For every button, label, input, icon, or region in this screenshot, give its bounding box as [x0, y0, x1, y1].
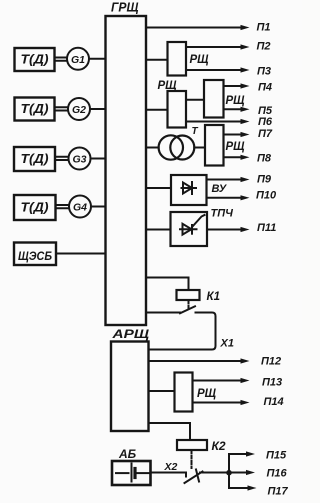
distribution board РЩ1 [168, 42, 187, 76]
svg-text:G1: G1 [71, 54, 85, 66]
svg-text:РЩ: РЩ [190, 54, 210, 66]
feeder П2 [186, 46, 241, 48]
diode symbol in ВУ [182, 187, 197, 189]
contactor coil K1 [177, 290, 200, 300]
wire transformer to РЩ4 [194, 147, 205, 149]
wire bus to ТПЧ [146, 229, 171, 231]
svg-text:П3: П3 [257, 66, 271, 78]
wire G2 to bus [90, 108, 106, 110]
wire G4 to bus [91, 206, 106, 208]
svg-text:П17: П17 [268, 486, 289, 498]
svg-text:П6: П6 [258, 116, 273, 128]
wire G3 to bus [91, 158, 106, 160]
svg-text:П11: П11 [257, 222, 276, 234]
feeder П8 [224, 156, 242, 158]
wire АРЩ to contactor K2 [149, 423, 191, 440]
svg-text:К2: К2 [212, 439, 226, 453]
feeder П3 [186, 69, 241, 71]
svg-text:Т(Д): Т(Д) [21, 102, 49, 116]
mechanical link K2 (dashed) [191, 450, 193, 468]
rectifier unit ВУ [171, 175, 207, 205]
wire bus to РЩ2 [146, 109, 168, 111]
junction node [226, 470, 232, 476]
svg-text:РЩ: РЩ [226, 95, 246, 107]
generator G2 [68, 98, 90, 120]
svg-text:П13: П13 [262, 377, 282, 389]
svg-text:Т: Т [192, 126, 199, 137]
svg-text:П2: П2 [257, 41, 271, 53]
svg-text:К1: К1 [207, 291, 220, 303]
svg-text:П12: П12 [261, 356, 281, 368]
wire contact to X1 [149, 313, 216, 350]
feeder П4 [224, 85, 242, 87]
wire bus to transformer [146, 147, 159, 149]
svg-text:П9: П9 [257, 174, 272, 186]
svg-text:G4: G4 [73, 202, 87, 214]
feeder П9 [207, 179, 242, 181]
wire bus to ВУ [146, 187, 171, 189]
main switchboard bus ГРЩ [106, 16, 147, 325]
contact K1 wire from bus [146, 312, 180, 314]
coupling link 1 [55, 58, 66, 61]
battery cell symbol [116, 472, 129, 474]
distribution board РЩ3 [204, 80, 224, 118]
wire G1 to bus [89, 58, 106, 60]
svg-text:G3: G3 [72, 154, 86, 166]
feeder П10 [207, 197, 242, 199]
svg-text:П16: П16 [267, 468, 288, 480]
coupling link 4 [56, 205, 69, 208]
svg-text:П14: П14 [264, 396, 284, 408]
wire bus to contactor K1 [146, 278, 189, 291]
svg-text:ВУ: ВУ [212, 183, 228, 195]
wire АБ to switch [151, 472, 187, 474]
distribution board РЩ5 [175, 373, 193, 412]
svg-text:ТПЧ: ТПЧ [211, 208, 234, 220]
svg-text:Т(Д): Т(Д) [21, 201, 49, 215]
wire ЩЭСБ to bus [56, 253, 106, 255]
svg-text:ГРЩ: ГРЩ [111, 1, 139, 15]
generator set box T(Д) 4 [14, 195, 56, 220]
generator set box T(Д) 3 [14, 147, 55, 171]
svg-text:Х1: Х1 [220, 338, 234, 350]
feeder П17 [229, 487, 248, 489]
feeder П16 [229, 472, 247, 474]
svg-text:П4: П4 [258, 81, 272, 93]
wire РЩ2 to РЩ3 [186, 99, 204, 101]
generator set box T(Д) 2 [15, 98, 55, 121]
svg-text:АБ: АБ [118, 447, 137, 461]
shore supply box ЩЭСБ [14, 243, 56, 266]
svg-text:РЩ: РЩ [226, 141, 246, 153]
feeder П11 [207, 229, 241, 231]
svg-text:G2: G2 [72, 104, 86, 116]
svg-text:РЩ: РЩ [197, 388, 217, 400]
distribution board РЩ2 [168, 91, 187, 128]
feeder П14 [193, 402, 242, 404]
contactor coil K2 [177, 440, 207, 450]
feeder П6 [186, 121, 241, 123]
branch riser [228, 454, 230, 488]
wire bus to РЩ1 [146, 59, 168, 61]
feeder П13 [193, 380, 242, 382]
svg-text:РЩ: РЩ [158, 80, 178, 92]
svg-text:П10: П10 [256, 189, 277, 201]
svg-text:АРЩ: АРЩ [111, 329, 150, 341]
feeder П7 [224, 134, 242, 136]
svg-text:П7: П7 [258, 128, 273, 140]
svg-text:П8: П8 [257, 153, 272, 165]
generator G4 [69, 196, 91, 218]
wire АРЩ to РЩ5 [149, 390, 175, 392]
generator G3 [69, 148, 91, 170]
coupling link 2 [55, 107, 67, 110]
feeder П5 [224, 108, 242, 110]
generator G1 [67, 48, 89, 70]
contact K1 blade [180, 306, 195, 313]
coupling link 3 [55, 157, 67, 160]
svg-text:Т(Д): Т(Д) [21, 53, 49, 67]
svg-text:Т(Д): Т(Д) [21, 152, 49, 166]
feeder П12 [149, 360, 242, 362]
svg-text:Х2: Х2 [164, 461, 178, 473]
feeder П1 [146, 27, 241, 29]
svg-text:П1: П1 [257, 22, 271, 34]
thyristor frequency converter ТПЧ [171, 212, 208, 246]
feeder П15 [229, 453, 247, 455]
thyristor symbol in ТПЧ [180, 228, 197, 230]
transformer T [159, 135, 183, 159]
svg-text:П15: П15 [266, 450, 287, 462]
generator set box T(Д) 1 [15, 48, 55, 71]
wire switch to junction [200, 472, 229, 474]
emergency switchboard АРЩ [111, 342, 149, 432]
mechanical link K1 (dashed) [188, 300, 190, 309]
switch K2 blade [185, 473, 187, 477]
svg-text:ЩЭСБ: ЩЭСБ [18, 251, 52, 263]
distribution board РЩ4 [205, 125, 224, 166]
